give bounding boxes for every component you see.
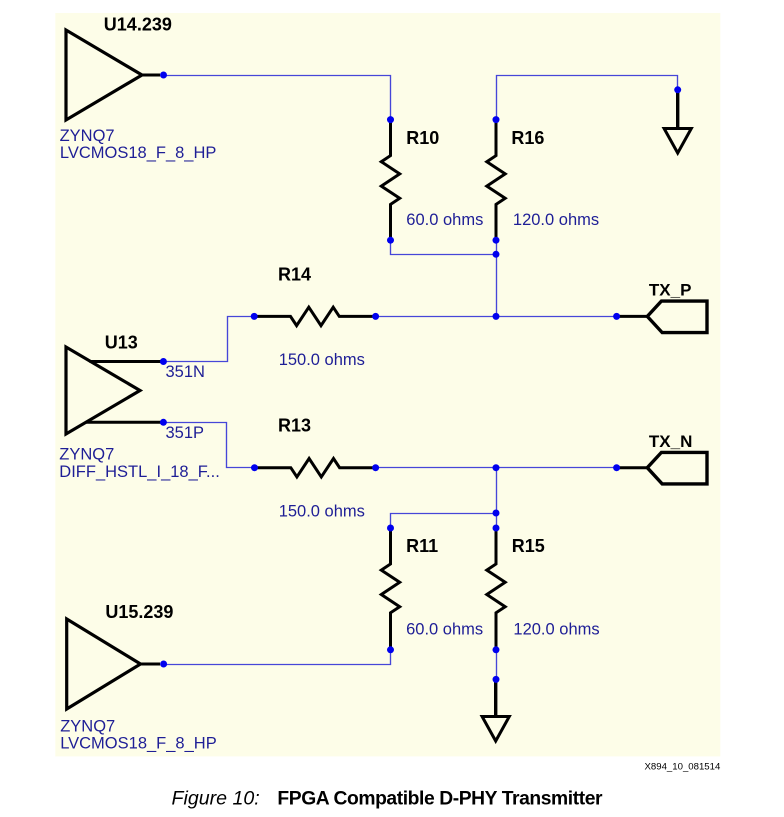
svg-text:DIFF_HSTL_I_18_F...: DIFF_HSTL_I_18_F... (59, 463, 219, 481)
svg-text:R10: R10 (406, 128, 439, 148)
svg-text:U14.239: U14.239 (104, 15, 172, 35)
svg-text:FPGA Compatible D-PHY Transmit: FPGA Compatible D-PHY Transmitter (277, 789, 603, 810)
svg-text:150.0 ohms: 150.0 ohms (279, 351, 365, 369)
svg-text:U15.239: U15.239 (105, 602, 173, 622)
svg-text:X894_10_081514: X894_10_081514 (645, 761, 721, 772)
svg-text:R11: R11 (406, 536, 438, 556)
svg-text:150.0 ohms: 150.0 ohms (279, 502, 365, 520)
svg-text:351P: 351P (166, 424, 205, 442)
svg-text:U13: U13 (105, 333, 138, 353)
svg-text:60.0 ohms: 60.0 ohms (406, 621, 483, 639)
svg-text:351N: 351N (166, 363, 205, 381)
svg-text:120.0 ohms: 120.0 ohms (513, 621, 599, 639)
svg-text:R15: R15 (512, 536, 545, 556)
svg-text:R16: R16 (511, 128, 544, 148)
svg-text:LVCMOS18_F_8_HP: LVCMOS18_F_8_HP (60, 734, 217, 752)
svg-text:R14: R14 (278, 265, 311, 285)
svg-text:ZYNQ7: ZYNQ7 (59, 446, 114, 464)
svg-text:LVCMOS18_F_8_HP: LVCMOS18_F_8_HP (60, 144, 217, 162)
svg-text:ZYNQ7: ZYNQ7 (60, 127, 115, 145)
svg-text:Figure 10:: Figure 10: (172, 788, 260, 810)
svg-text:60.0 ohms: 60.0 ohms (406, 211, 483, 229)
svg-text:120.0 ohms: 120.0 ohms (513, 211, 599, 229)
svg-text:ZYNQ7: ZYNQ7 (60, 718, 115, 736)
svg-text:TX_N: TX_N (649, 432, 692, 451)
svg-text:TX_P: TX_P (649, 280, 692, 299)
svg-text:R13: R13 (278, 416, 311, 436)
